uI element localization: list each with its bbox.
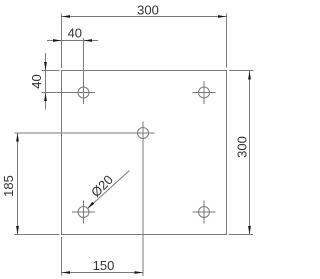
hole top-left centermark + extension to 40 dims xyxy=(83,38,85,104)
dim 40 left: dimension line xyxy=(45,53,47,110)
hole top-left xyxy=(78,87,89,98)
svg-text:40: 40 xyxy=(68,26,82,41)
hole bottom-right xyxy=(199,207,210,218)
dim 300 top: arrow left xyxy=(62,15,71,18)
dim 300 top: extension line left xyxy=(61,14,63,69)
svg-text:300: 300 xyxy=(137,2,159,17)
hole bottom-right centermark xyxy=(193,211,216,213)
dim 300 top: extension line right xyxy=(226,14,228,68)
dim 40 top: arrow right (outside, pointing left) xyxy=(84,39,93,42)
hole top-right centermark xyxy=(193,92,216,94)
svg-text:150: 150 xyxy=(93,258,115,273)
dim 185: arrow bottom xyxy=(16,226,19,235)
hole center centermark + extensions to 185 and 150 dims xyxy=(15,132,155,134)
svg-text:300: 300 xyxy=(234,136,249,158)
dim 185: extension line bottom (plate bottom edge extended) xyxy=(15,234,60,236)
dim 300 right: arrow bottom xyxy=(248,226,251,235)
hole top-right xyxy=(199,87,210,98)
svg-text:Ø20: Ø20 xyxy=(88,172,116,200)
dim 40 top: arrow left (outside, pointing right) xyxy=(53,39,62,42)
dim 300 right: dimension line xyxy=(249,71,251,235)
dim 185: arrow top xyxy=(16,133,19,142)
dim 40 left: extension line top (plate top edge extended) xyxy=(42,70,60,72)
hole bottom-left xyxy=(78,207,89,218)
plate outline 300x300 xyxy=(62,71,227,235)
dim 300 top: arrow right xyxy=(218,15,227,18)
svg-text:40: 40 xyxy=(29,74,44,88)
dim 150: extension line left (plate left edge extended) xyxy=(61,237,63,276)
dim 185: dimension line xyxy=(17,133,19,235)
dim 300 right: extension line bottom xyxy=(229,234,254,236)
dim 300 right: extension line top xyxy=(229,70,254,72)
dim 300 top: dimension line xyxy=(62,16,227,18)
hole center xyxy=(138,128,149,139)
dim 300 right: arrow top xyxy=(248,71,251,80)
dim 150: dimension line xyxy=(62,272,144,274)
dim 150: arrow right xyxy=(135,271,144,274)
leader arrow at hole xyxy=(87,202,94,209)
dim 40 left: arrow bottom (outside, pointing up) xyxy=(44,93,47,102)
dim 40 top: dimension line with outside arrows xyxy=(47,40,98,42)
svg-text:185: 185 xyxy=(1,175,16,197)
dim 150: arrow left xyxy=(62,271,71,274)
leader line for hole diameter xyxy=(87,171,129,209)
dim 40 left: arrow top (outside, pointing down) xyxy=(44,62,47,71)
hole bottom-left centermark xyxy=(72,211,95,213)
